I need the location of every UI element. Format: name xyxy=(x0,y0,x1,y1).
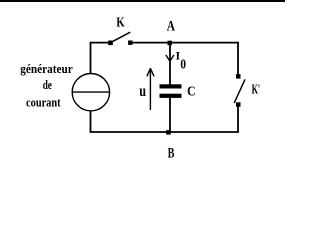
svg-text:B: B xyxy=(168,146,175,162)
capacitor C bottom plate xyxy=(160,94,182,98)
bottom junction dot (node B) xyxy=(166,130,171,135)
switch K' upper contact dot xyxy=(236,74,241,79)
wire: middle branch lower (capacitor to bottom rail) xyxy=(169,98,171,133)
generator circle (current source) xyxy=(72,74,109,111)
svg-text:courant: courant xyxy=(26,95,61,110)
svg-text:K: K xyxy=(116,16,124,31)
svg-text:générateur: générateur xyxy=(20,61,73,76)
wire: top-left vertical from corner down to current source xyxy=(90,42,92,74)
generator diameter line xyxy=(72,91,109,93)
wire: middle branch upper (node A to capacitor) xyxy=(169,43,171,85)
wire: top rail right segment (switch K to right corner) xyxy=(130,42,239,44)
wire: right branch lower xyxy=(237,105,239,133)
switch K blade xyxy=(111,32,130,42)
switch K' blade xyxy=(234,79,245,103)
node A junction dot xyxy=(168,41,173,46)
capacitor C top plate xyxy=(160,84,182,88)
wire: vertical below current source xyxy=(90,111,92,133)
wire: bottom rail xyxy=(90,131,239,133)
wire: right branch upper xyxy=(237,42,239,76)
switch K right contact dot xyxy=(128,41,132,45)
svg-text:de: de xyxy=(43,77,52,92)
voltage arrow u (shaft) xyxy=(149,69,151,111)
svg-text:A: A xyxy=(167,19,175,35)
svg-text:u: u xyxy=(139,83,146,100)
voltage arrow u (head) xyxy=(147,68,154,76)
svg-text:C: C xyxy=(187,84,195,99)
top border rule xyxy=(0,0,285,2)
switch K left contact dot xyxy=(108,41,113,46)
current arrow I0 head xyxy=(166,55,174,61)
svg-text:K': K' xyxy=(252,83,261,98)
switch K' lower contact dot xyxy=(236,102,241,107)
wire: top rail left segment (corner to switch K) xyxy=(90,42,111,44)
svg-text:0: 0 xyxy=(180,58,186,73)
